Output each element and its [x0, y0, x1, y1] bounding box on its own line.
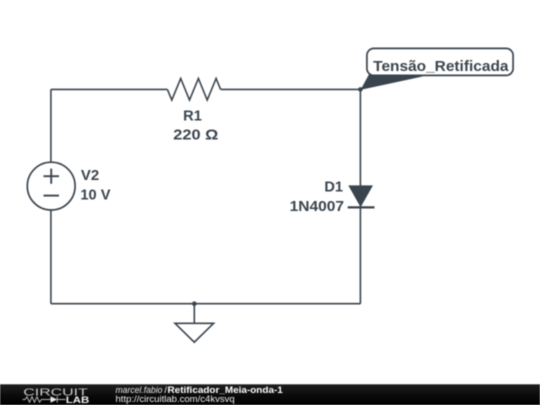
svg-text:Tensão_Retificada: Tensão_Retificada [373, 59, 509, 75]
svg-text:10 V: 10 V [80, 187, 110, 203]
svg-text:http://circuitlab.com/c4kvsvq: http://circuitlab.com/c4kvsvq [116, 394, 235, 404]
voltage source V2 [27, 162, 75, 210]
footer bar [0, 384, 540, 405]
wire bottom horizontal [51, 303, 361, 305]
resistor R1 [167, 79, 220, 101]
wire left vertical (V2 top lead) [50, 89, 52, 162]
svg-text:R1: R1 [183, 109, 202, 125]
CircuitLab logo zigzag-diode line [23, 396, 66, 402]
wire top horizontal right of R1 [221, 88, 361, 90]
svg-text:V2: V2 [81, 168, 99, 184]
svg-text:1N4007: 1N4007 [290, 199, 344, 215]
wire right vertical [359, 89, 361, 303]
svg-text:LAB: LAB [66, 395, 90, 405]
svg-text:220 Ω: 220 Ω [173, 127, 218, 143]
svg-text:D1: D1 [324, 179, 343, 195]
wire left vertical (V2 bottom lead) [50, 210, 52, 304]
ground [175, 304, 214, 343]
diode D1 [348, 185, 375, 207]
node Tensão_Retificada junction dot [358, 87, 363, 92]
wire top horizontal left of R1 [51, 88, 167, 90]
net label callout Tensão_Retificada [361, 48, 513, 89]
junction dot at ground node [192, 301, 197, 306]
